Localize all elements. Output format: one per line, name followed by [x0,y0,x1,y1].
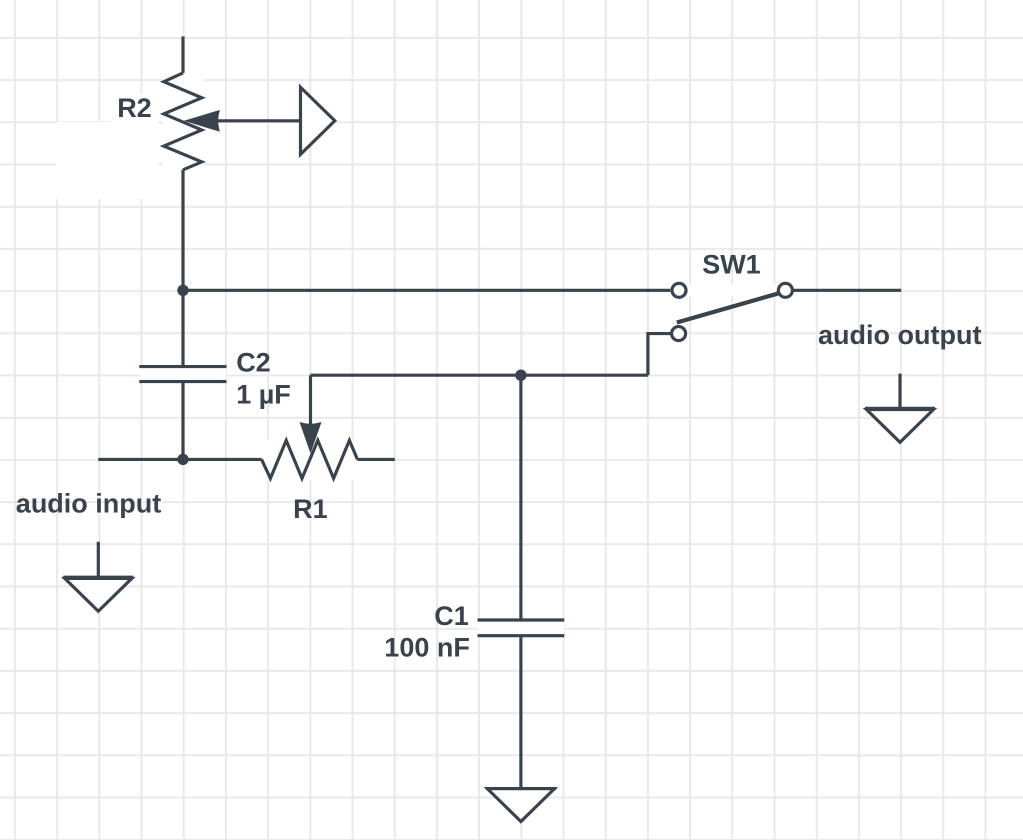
svg-text:R2: R2 [117,93,152,123]
svg-text:1 µF: 1 µF [236,380,291,410]
svg-text:C2: C2 [236,347,271,377]
svg-text:audio input: audio input [16,489,161,519]
svg-text:R1: R1 [293,494,328,524]
svg-text:C1: C1 [434,601,469,631]
svg-text:SW1: SW1 [702,249,761,279]
svg-text:audio output: audio output [818,320,981,350]
svg-text:100 nF: 100 nF [384,633,470,663]
